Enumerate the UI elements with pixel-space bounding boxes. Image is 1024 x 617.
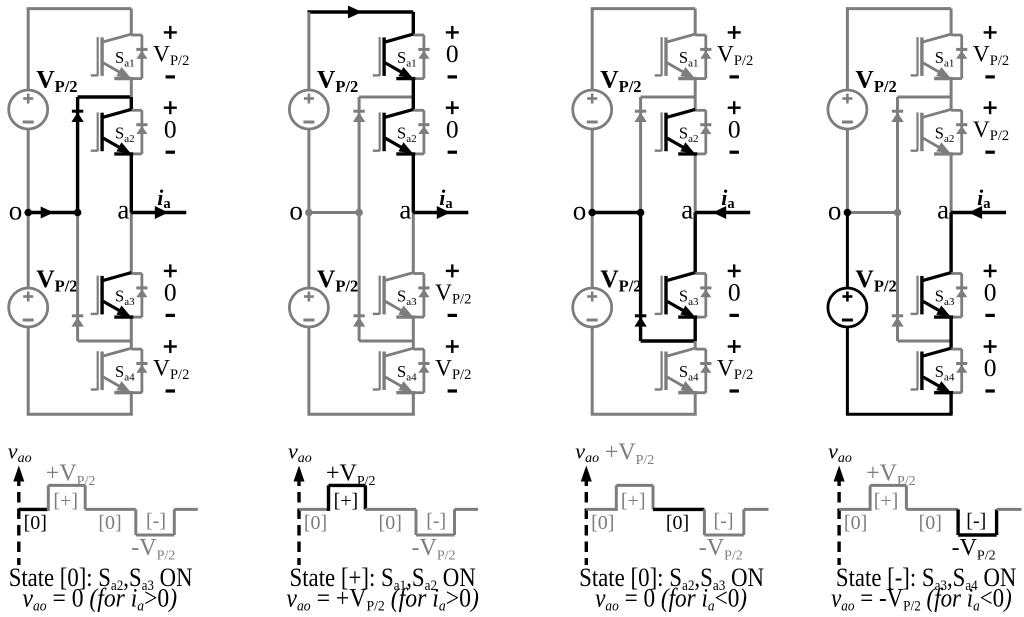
svg-text:[-]: [-] (426, 510, 446, 532)
svg-text:[0]: [0] (24, 512, 47, 534)
svg-text:[0]: [0] (844, 512, 867, 534)
svg-text:a: a (937, 195, 949, 225)
svg-text:o: o (828, 196, 842, 226)
svg-text:[0]: [0] (98, 512, 121, 534)
svg-text:a: a (399, 195, 411, 225)
svg-text:[0]: [0] (591, 512, 614, 534)
svg-text:o: o (9, 196, 23, 226)
svg-text:0: 0 (164, 114, 177, 143)
svg-text:0: 0 (984, 278, 997, 307)
svg-text:[-]: [-] (714, 510, 734, 532)
svg-text:[+]: [+] (621, 490, 646, 512)
svg-text:[+]: [+] (334, 490, 359, 512)
svg-text:[-]: [-] (146, 510, 166, 532)
svg-text:[+]: [+] (53, 490, 78, 512)
svg-text:0: 0 (446, 39, 459, 68)
svg-text:a: a (681, 195, 693, 225)
svg-text:0: 0 (728, 114, 741, 143)
svg-text:o: o (573, 196, 587, 226)
svg-text:[0]: [0] (919, 512, 942, 534)
svg-text:0: 0 (164, 278, 177, 307)
svg-text:o: o (289, 196, 303, 226)
svg-text:[0]: [0] (666, 512, 689, 534)
svg-text:vao = -VP/2 (for ia<0): vao = -VP/2 (for ia<0) (831, 584, 1012, 615)
svg-text:0: 0 (446, 114, 459, 143)
svg-text:a: a (117, 195, 129, 225)
svg-text:0: 0 (728, 278, 741, 307)
svg-text:[-]: [-] (966, 510, 986, 532)
svg-text:0: 0 (984, 353, 997, 382)
svg-text:[+]: [+] (874, 490, 899, 512)
svg-text:[0]: [0] (379, 512, 402, 534)
svg-text:[0]: [0] (304, 512, 327, 534)
